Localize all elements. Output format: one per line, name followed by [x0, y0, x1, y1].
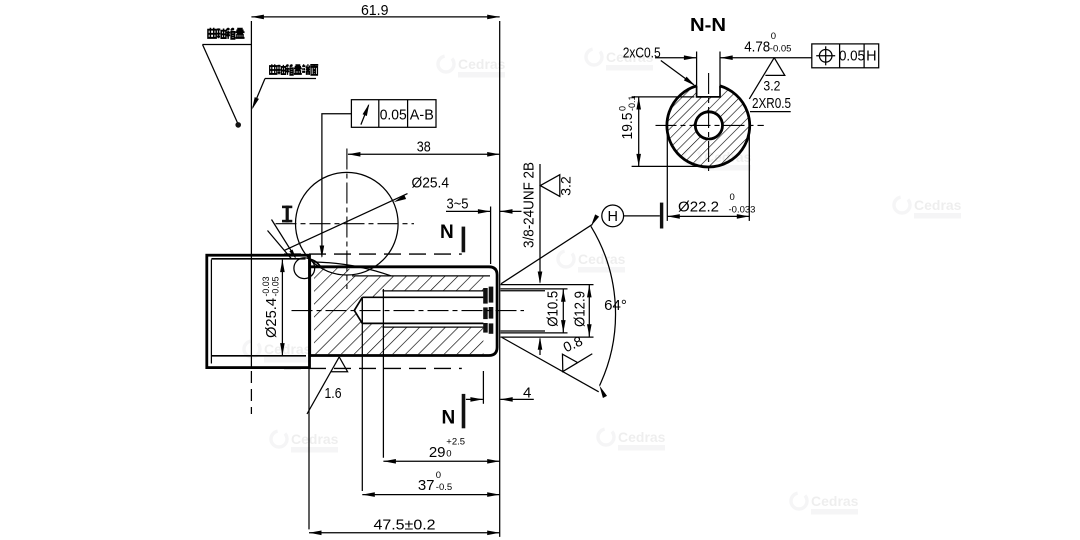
faint watermarks — [244, 49, 962, 515]
svg-text:Ø22.2: Ø22.2 — [678, 199, 719, 216]
drill point junction line — [361, 297, 363, 323]
detail I leader wedge — [272, 220, 296, 258]
section marker N (top) — [440, 222, 465, 253]
svg-text:-0.033: -0.033 — [729, 204, 756, 215]
svg-text:19.5: 19.5 — [619, 113, 636, 140]
runout feature control frame 0.05 A-B — [351, 100, 436, 128]
cover bore top edge — [211, 258, 305, 260]
gauge ball circle Ø25.4 — [296, 172, 399, 275]
dimension 38 — [348, 139, 500, 157]
cover face hidden continuation below — [250, 371, 252, 414]
svg-text:+2.5: +2.5 — [446, 437, 465, 448]
shaft outline (Ø22.2 body, rounded right corners) — [310, 267, 497, 356]
dimension Ø22.2 0/-0.033 — [667, 129, 755, 221]
section circle hatch — [667, 84, 750, 167]
white margin right of thread end — [483, 276, 495, 354]
keyway width extension lines — [696, 52, 698, 89]
detail circle I at fillet — [294, 258, 315, 279]
label 曲轴箱盖 (crankcase cover) — [203, 28, 252, 128]
main axis centerline — [292, 310, 525, 312]
svg-text:2XR0.5: 2XR0.5 — [752, 96, 791, 112]
svg-text:-0.5: -0.5 — [436, 482, 452, 493]
center hole white — [695, 112, 722, 139]
fillet at face / taper start — [310, 259, 321, 266]
svg-text:61.9: 61.9 — [361, 2, 389, 19]
svg-text:Ø12.9: Ø12.9 — [572, 291, 589, 327]
svg-text:3.2: 3.2 — [763, 78, 780, 94]
svg-text:N: N — [442, 407, 456, 428]
svg-text:0: 0 — [730, 192, 735, 203]
svg-text:37: 37 — [418, 477, 435, 494]
right face extension line — [499, 21, 501, 537]
svg-text:4: 4 — [523, 384, 531, 401]
position tolerance frame 0.05 H — [812, 44, 879, 68]
dimension 29 +2.5/0 — [383, 289, 499, 464]
cover mating face line (61.9 datum) — [250, 21, 252, 368]
64° dimension arc — [591, 226, 616, 385]
svg-text:0.05: 0.05 — [380, 107, 407, 124]
dimension 47.5±0.2 — [309, 360, 500, 536]
roughness 0.8 on chamfer — [555, 341, 592, 380]
svg-text:A-B: A-B — [410, 107, 434, 124]
svg-text:Ø25.4: Ø25.4 — [412, 175, 450, 192]
svg-text:3.2: 3.2 — [558, 176, 574, 196]
ball vertical centerline — [346, 149, 348, 290]
svg-text:47.5±0.2: 47.5±0.2 — [374, 517, 436, 534]
datum H — [602, 203, 664, 229]
dimension 37 0/-0.5 — [362, 297, 499, 497]
dimension Ø12.9 — [572, 285, 592, 337]
svg-text:1.6: 1.6 — [325, 385, 342, 402]
keyway slot outline — [697, 86, 720, 97]
roughness 3.2 rotated at thread — [540, 175, 573, 197]
shaft left end face — [308, 259, 311, 357]
svg-text:0: 0 — [436, 470, 441, 481]
crankcase cover outline — [207, 255, 310, 367]
svg-text:0.05: 0.05 — [839, 49, 865, 65]
dimension 19.5 0/-0.1 — [618, 95, 706, 166]
thread major top line — [382, 290, 483, 292]
svg-text:0: 0 — [771, 31, 776, 42]
ball diagonal leader line — [284, 194, 407, 251]
svg-text:38: 38 — [417, 139, 431, 156]
svg-text:N-N: N-N — [690, 14, 726, 35]
drill hole top edge — [362, 296, 483, 298]
section N-N outer circle — [667, 86, 750, 167]
svg-text:2xC0.5: 2xC0.5 — [623, 45, 661, 61]
svg-text:-0.05: -0.05 — [271, 277, 282, 297]
svg-text:-0.1: -0.1 — [627, 95, 637, 111]
detail label I — [282, 206, 292, 223]
runout frame leader — [322, 114, 352, 257]
svg-text:3~5: 3~5 — [447, 195, 469, 212]
phantom hidden line below shaft — [284, 367, 462, 369]
drill point cone — [354, 297, 362, 323]
N-N horizontal centerline — [656, 124, 764, 126]
keyway floor runout curve — [312, 262, 391, 276]
svg-text:0: 0 — [446, 448, 451, 459]
svg-text:Ø25.4: Ø25.4 — [263, 298, 280, 338]
dimension 4 — [466, 371, 534, 404]
center hole circle — [695, 112, 722, 139]
drill hole bottom edge — [362, 322, 483, 324]
hatch fill of shaft section — [314, 268, 488, 354]
svg-text:4.78: 4.78 — [744, 39, 770, 55]
phantom hidden line above shaft — [284, 253, 462, 255]
dimension 61.9 — [251, 2, 499, 19]
label 2xC0.5 with leader — [623, 45, 697, 87]
roughness 3.2 on keyway — [749, 58, 785, 99]
svg-text:64°: 64° — [604, 297, 627, 314]
cover bore bottom edge — [211, 355, 306, 357]
svg-text:N: N — [440, 222, 454, 243]
svg-text:H: H — [866, 49, 876, 65]
dimension Ø10.5 — [545, 289, 566, 332]
thread end bar 1 — [483, 288, 488, 333]
svg-text:29: 29 — [429, 444, 446, 461]
dimension Ø25.4 -0.03/-0.05 — [261, 260, 306, 356]
dimension 4.78 0/-0.05 — [655, 31, 812, 60]
hole projection lines right of face — [501, 285, 594, 338]
svg-text:3/8-24UNF 2B: 3/8-24UNF 2B — [521, 162, 538, 248]
keyway floor line — [352, 275, 490, 277]
tapped hole cavity (white) — [354, 291, 483, 327]
keyway slot white — [697, 80, 720, 97]
label 曲轴箱盖端面 (cover end face) — [250, 64, 318, 110]
thread callout 3/8-24UNF 2B — [521, 162, 543, 355]
thread end bar 2 — [489, 287, 494, 334]
ball horizontal centerline — [276, 223, 415, 225]
thread major bottom line — [382, 326, 483, 328]
cover inner edge line — [210, 260, 212, 364]
svg-text:H: H — [607, 209, 617, 225]
chamfer ray upper (64°) — [501, 224, 593, 283]
chamfer ray lower (64°) — [502, 338, 599, 392]
dimension 3~5 — [446, 195, 522, 264]
label 2XR0.5 — [750, 96, 791, 112]
svg-text:Ø10.5: Ø10.5 — [545, 291, 562, 327]
svg-text:-0.05: -0.05 — [770, 43, 792, 54]
N-N vertical centerline — [708, 73, 710, 174]
section marker N (bottom) — [442, 394, 466, 428]
roughness 1.6 on bottom surface — [307, 357, 348, 414]
